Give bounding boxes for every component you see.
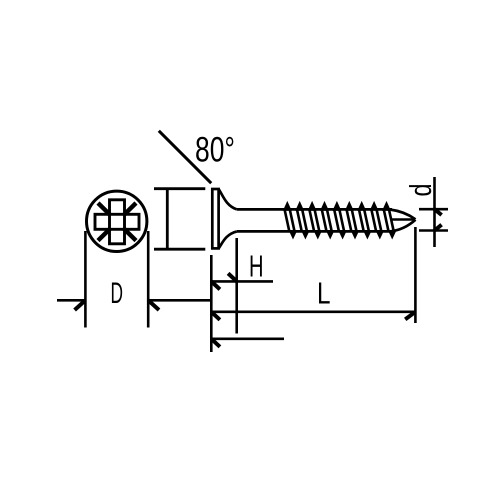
thread 8 bottom crest <box>377 231 383 237</box>
extension line head end <box>235 238 238 334</box>
80 degree angle leader line <box>159 131 211 183</box>
L dimension arrow right <box>405 312 415 320</box>
thread 2 flank line b <box>302 210 307 231</box>
thread 3 flank line b <box>315 210 320 231</box>
thread 5 flank line b <box>340 210 345 231</box>
D extension line left <box>84 231 87 328</box>
thread 7 flank line a <box>359 210 364 231</box>
shaft bottom line <box>237 230 392 233</box>
d dimension vertical line <box>433 177 436 247</box>
thread 2 bottom crest <box>303 231 309 237</box>
thread 3 bottom crest <box>315 231 321 237</box>
screw tip cone bottom edge <box>391 220 416 232</box>
screw head front view circle <box>87 191 147 251</box>
d dimension top tick <box>419 208 448 211</box>
D dimension arrow right <box>148 300 159 310</box>
head bottom fillet curve <box>219 231 237 248</box>
pozidriv bottom-left index mark <box>98 229 110 241</box>
thread 5 top crest <box>334 203 340 210</box>
D dimension line left segment <box>57 299 85 302</box>
head height dimension vertical line <box>166 189 169 250</box>
d dimension arrow down <box>435 225 442 231</box>
thread crests and flanks <box>284 203 395 237</box>
head top fillet curve <box>219 189 237 209</box>
thread 4 flank line a <box>322 210 327 231</box>
svg-text:D: D <box>111 277 124 310</box>
svg-text:80°: 80° <box>195 131 235 170</box>
pozidriv top-right index mark <box>124 203 136 215</box>
thread 6 top crest <box>346 203 352 210</box>
thread 7 flank line b <box>364 210 369 231</box>
H dimension line <box>211 280 273 283</box>
thread 3 flank line a <box>310 210 315 231</box>
thread 1 bottom crest <box>290 231 296 237</box>
pozidriv top-left index mark <box>98 203 110 215</box>
D dimension arrow left <box>75 300 86 310</box>
thread 9 flank line b <box>389 210 394 231</box>
thread 5 flank line a <box>334 210 339 231</box>
thread 8 flank line b <box>377 210 382 231</box>
screw head back face <box>212 189 218 248</box>
thread 6 bottom crest <box>352 231 358 237</box>
svg-text:L: L <box>317 276 331 311</box>
D extension line right <box>147 231 150 328</box>
thread 9 top crest <box>384 203 390 210</box>
L dimension arrow left <box>211 312 220 320</box>
pozidriv recess vertical slot <box>110 200 125 244</box>
thread 4 top crest <box>322 203 328 210</box>
L extension line at tip <box>414 227 417 323</box>
thread 7 top crest <box>359 203 365 210</box>
shaft top line <box>237 208 392 211</box>
thread 4 flank line b <box>327 210 332 231</box>
head height dimension top tick <box>154 187 205 190</box>
lower reference arrow <box>211 339 220 347</box>
thread 9 flank line a <box>384 210 389 231</box>
head height dimension bottom tick <box>154 248 205 251</box>
H dimension arrow left <box>211 281 220 289</box>
lower reference line <box>211 337 284 340</box>
thread 4 bottom crest <box>327 231 333 237</box>
screw tip mid line <box>392 218 415 221</box>
thread 1 flank line b <box>290 210 295 231</box>
L dimension line <box>211 310 415 313</box>
thread 9 bottom crest <box>389 231 395 237</box>
thread 3 top crest <box>309 203 315 210</box>
D dimension line right segment <box>148 299 211 302</box>
screw tip cone top edge <box>391 210 416 220</box>
svg-text:H: H <box>249 250 264 284</box>
thread 5 bottom crest <box>340 231 346 237</box>
d dimension bottom tick <box>419 229 448 232</box>
pozidriv recess horizontal slot <box>95 214 139 229</box>
thread 1 flank line a <box>285 210 290 231</box>
thread 2 flank line a <box>297 210 302 231</box>
thread 8 top crest <box>371 203 377 210</box>
H dimension arrow right <box>228 273 237 281</box>
pozidriv bottom-right index mark <box>124 229 136 241</box>
thread 7 bottom crest <box>365 231 371 237</box>
thread 1 top crest <box>284 203 290 210</box>
thread 8 flank line a <box>372 210 377 231</box>
svg-text:d: d <box>403 184 438 197</box>
thread 6 flank line a <box>347 210 352 231</box>
thread 2 top crest <box>297 203 303 210</box>
d dimension arrow up <box>435 209 442 215</box>
extension line head back face <box>210 255 213 352</box>
thread 6 flank line b <box>352 210 357 231</box>
